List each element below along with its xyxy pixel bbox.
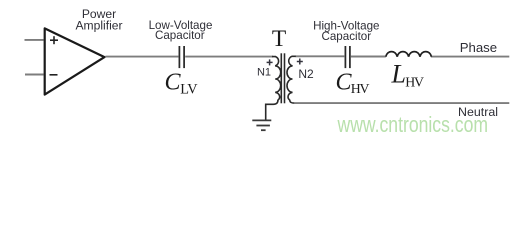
svg-text:N1: N1 <box>257 66 271 78</box>
svg-text:HV: HV <box>351 81 370 96</box>
svg-text:L: L <box>391 59 406 88</box>
svg-text:N2: N2 <box>298 67 314 81</box>
svg-text:Phase: Phase <box>460 40 497 55</box>
svg-text:LV: LV <box>180 81 198 97</box>
svg-text:Capacitor: Capacitor <box>321 30 371 43</box>
svg-text:HV: HV <box>405 75 424 90</box>
svg-text:www.cntronics.com: www.cntronics.com <box>337 113 488 137</box>
svg-text:Capacitor: Capacitor <box>155 29 205 42</box>
svg-text:C: C <box>165 70 182 96</box>
svg-text:T: T <box>272 26 286 52</box>
svg-text:Amplifier: Amplifier <box>75 18 122 32</box>
